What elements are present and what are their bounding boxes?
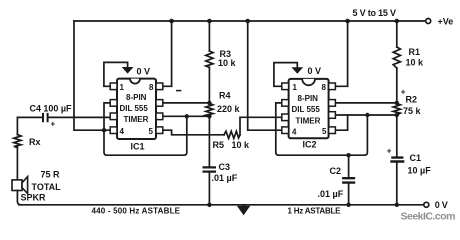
wire rail to R1 [396,21,398,47]
wire rail riser to IC2 pin4 [248,21,282,130]
svg-text:8-PIN: 8-PIN [298,94,319,103]
node junction pin4 feed [102,128,106,132]
wire speaker to bottom rail [17,191,20,205]
wire IC2 pin8 riser [335,21,347,86]
svg-text:R2: R2 [406,95,418,105]
svg-text:75 R: 75 R [41,170,61,180]
node junction top rail x347 [345,19,350,24]
wire IC2 pin2 to pin6 under-route [276,103,368,155]
capacitor C4 [43,114,48,121]
svg-text:IC2: IC2 [303,140,317,150]
wire IC2 pin6 to R2 [335,114,396,116]
capacitor C1 [392,158,404,162]
svg-text:R5: R5 [213,140,225,150]
resistor R2 [393,103,400,115]
wire C4 to left column [17,117,42,134]
resistor R4 [206,103,213,116]
wire IC2 pin1 to ground [274,63,297,87]
svg-text:Rx: Rx [29,137,41,147]
node junction pin6 under-route IC2 [365,113,369,117]
svg-text:R1: R1 [409,47,421,57]
speaker 75R total SPKR [12,177,28,194]
svg-text:IC1: IC1 [131,142,145,152]
svg-text:8: 8 [322,83,327,92]
svg-text:+: + [387,146,392,155]
ground 0V symbol IC2 [291,67,303,74]
svg-text:SPKR: SPKR [21,193,47,203]
resistor R3 [206,51,213,67]
svg-text:1: 1 [120,83,125,92]
node junction top rail x247 [245,19,250,24]
resistor R1 [393,47,400,68]
node +Ve terminal [426,19,431,24]
svg-text:440 - 500 Hz ASTABLE: 440 - 500 Hz ASTABLE [92,207,181,216]
wire IC1 pin1 to ground [104,62,128,86]
svg-text:C1: C1 [410,153,422,163]
ground symbol bottom center [243,205,245,206]
wire R2 to C1 [396,115,398,157]
node junction R4 pin6 [207,114,211,118]
svg-text:1 Hz ASTABLE: 1 Hz ASTABLE [288,207,342,216]
node junction top rail x171 [169,19,174,24]
svg-text:.01 µF: .01 µF [318,189,344,199]
svg-text:1: 1 [293,83,298,92]
node junction top rail x209 [207,19,212,24]
wire IC1 pin8 riser [163,21,172,86]
svg-text:10 k: 10 k [218,58,237,68]
svg-text:10 k: 10 k [232,140,251,150]
wire IC1 pin5 to R5 [163,130,224,135]
svg-text:.01 µF: .01 µF [212,173,238,183]
wire IC1 pin3 output to C4 [48,116,110,118]
svg-text:+Ve: +Ve [438,17,454,27]
svg-text:10 µF: 10 µF [408,166,432,176]
svg-text:5: 5 [322,127,327,136]
wire left riser to IC1 pin4 [74,21,110,130]
wire R4 junction down to C3 [208,116,210,167]
IC1 pin boxes right [156,83,163,134]
wire IC1 pin6 [163,115,210,117]
node junction R3 R4 pin7 [207,101,211,105]
wire C1 to bottom rail [396,162,398,205]
wire top +V rail [74,20,426,22]
ground 0V symbol IC1 [122,67,134,74]
node junction pin6 under-route [185,114,189,118]
svg-text:220 k: 220 k [217,104,241,114]
capacitor C2 [343,178,354,182]
wire R1 to pin7 junction [396,68,398,103]
IC2 pin boxes left [282,83,289,134]
svg-text:8-PIN: 8-PIN [126,93,147,102]
svg-text:5: 5 [149,127,154,136]
wire R3 to pin7 junction [208,67,210,103]
wire IC1 pin2 to pin6 under-route [104,103,187,155]
node junction R1 R2 pin7 [395,101,399,105]
svg-text:TIMER: TIMER [296,116,321,125]
resistor R5 [224,131,240,138]
wire R5 to IC2 pin3 output [240,117,282,135]
IC2 pin boxes right [329,83,336,134]
op-amp IC2 8-pin DIL 555 body [289,79,329,138]
svg-text:SeekIC.com: SeekIC.com [401,211,456,223]
node junction C2 bottom rail [346,203,350,207]
svg-text:4: 4 [292,128,297,137]
resistor Rx [14,135,21,148]
op-amp IC1 8-pin DIL 555 body [117,79,156,139]
wire bottom 0V rail [19,204,424,206]
wire IC1 pin7 [163,102,210,104]
wire IC2 pin5 riser to pin6 [335,115,347,130]
node junction C3 bottom rail [207,203,211,207]
wire Rx to speaker [16,147,18,180]
svg-text:10 k: 10 k [406,58,425,68]
svg-text:C4 100 µF: C4 100 µF [30,103,73,113]
svg-text:0 V: 0 V [137,67,151,77]
svg-text:R4: R4 [219,90,231,100]
svg-text:+: + [401,88,406,97]
svg-text:75 k: 75 k [403,106,422,116]
svg-text:8: 8 [149,83,154,92]
node 0V terminal [424,202,429,207]
svg-text:+: + [51,119,56,128]
svg-text:0 V: 0 V [308,66,322,76]
node junction C1 bottom rail [395,203,399,207]
node junction R2 pin6 [395,113,399,117]
wire C2 tap down [348,155,350,178]
svg-text:4: 4 [120,127,125,136]
wire C3 to bottom rail [208,172,210,205]
node junction top rail x396 [395,19,400,24]
node minus mark [177,90,181,92]
svg-text:DIL 555: DIL 555 [292,105,321,114]
svg-text:0 V: 0 V [435,200,448,210]
wire IC2 pin7 [335,102,396,104]
svg-text:C2: C2 [330,166,342,176]
svg-text:C3: C3 [219,162,231,172]
svg-text:5 V to 15 V: 5 V to 15 V [353,8,397,18]
capacitor C3 [204,167,215,171]
node junction C2 tap [346,153,350,157]
svg-text:TOTAL: TOTAL [32,182,62,192]
IC1 pin boxes left [110,83,117,134]
svg-text:TIMER: TIMER [124,115,149,124]
wire C2 to bottom rail [348,183,350,205]
svg-text:DIL 555: DIL 555 [120,104,149,113]
wire rail to R3 [208,21,210,51]
